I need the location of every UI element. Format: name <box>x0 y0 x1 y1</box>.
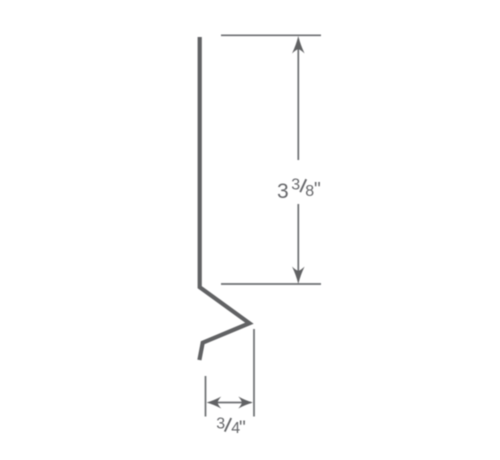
svg-text:8: 8 <box>305 183 314 200</box>
svg-text:3: 3 <box>277 180 289 203</box>
svg-text:3: 3 <box>291 176 300 193</box>
svg-text:": " <box>239 418 246 439</box>
svg-text:3: 3 <box>216 416 225 433</box>
svg-text:": " <box>314 180 321 201</box>
